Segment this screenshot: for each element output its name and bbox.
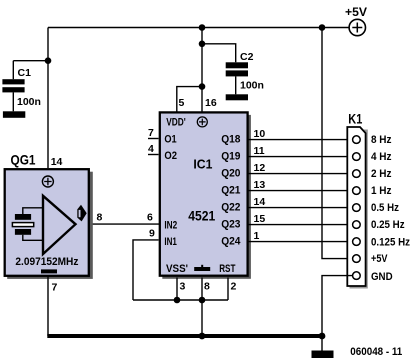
crystal bottom lead [23, 235, 43, 241]
wire C2 branch [202, 44, 236, 63]
svg-text:11: 11 [254, 145, 265, 157]
svg-text:13: 13 [254, 179, 266, 191]
wire Q23 to K1 [249, 224, 353, 226]
svg-text:K1: K1 [348, 111, 362, 127]
svg-text:IN1: IN1 [164, 236, 177, 248]
wire +5V feed to K1 [322, 28, 352, 259]
crystal top electrode [15, 214, 31, 220]
svg-text:IN2: IN2 [164, 219, 177, 231]
node junction bus center [199, 333, 206, 340]
svg-text:100n: 100n [240, 80, 264, 92]
wire IC1 pin 4 stub [148, 154, 159, 156]
svg-text:12: 12 [254, 162, 266, 174]
node junction rail to K1 +5V [319, 24, 326, 31]
svg-text:Q18: Q18 [221, 134, 240, 146]
wire ground net under IC1 [133, 299, 228, 301]
+5V terminal X1 [345, 5, 367, 36]
svg-text:2.097152MHz: 2.097152MHz [15, 256, 78, 268]
svg-text:1: 1 [254, 230, 260, 242]
K1 pin 4 circle [353, 187, 361, 195]
svg-text:GND: GND [371, 271, 393, 283]
wire K1 GND to bus [322, 276, 352, 336]
svg-text:1 Hz: 1 Hz [371, 185, 392, 197]
svg-text:0.125 Hz: 0.125 Hz [371, 236, 410, 248]
svg-text:VSS': VSS' [166, 263, 188, 275]
svg-text:4 Hz: 4 Hz [371, 151, 392, 163]
svg-text:15: 15 [254, 213, 266, 225]
svg-text:6: 6 [147, 212, 153, 224]
IC U1 IC1 4521 box [160, 112, 251, 278]
svg-text:16: 16 [205, 97, 217, 109]
ground under C2 [226, 94, 248, 100]
wire QG1 pin 7 to bus [47, 277, 49, 337]
K1 pin 8 circle [353, 255, 361, 263]
wire C1 branch [13, 60, 48, 62]
IC1 RST active-low bar [194, 265, 210, 271]
wire Q22 to K1 [249, 207, 353, 209]
oscillator QG1 box [5, 169, 93, 279]
K1 pin 7 circle [353, 238, 361, 246]
crystal bottom electrode [15, 229, 31, 235]
node junction pin 8 [199, 297, 206, 304]
svg-text:100n: 100n [17, 96, 41, 108]
svg-text:C1: C1 [18, 67, 32, 79]
ground bus wire [47, 334, 322, 338]
svg-text:QG1: QG1 [11, 152, 36, 167]
wire vertical from rail to QG1 pin 14 [47, 28, 49, 169]
wire Q24 to K1 [249, 241, 353, 243]
node junction C2 branch [199, 41, 206, 48]
K1 pin 3 circle [353, 170, 361, 178]
svg-text:3: 3 [180, 281, 186, 293]
svg-text:10: 10 [254, 128, 266, 140]
svg-text:Q22: Q22 [221, 202, 240, 214]
svg-text:7: 7 [52, 282, 58, 294]
svg-text:O2: O2 [164, 150, 177, 162]
svg-text:060048 - 11: 060048 - 11 [350, 346, 402, 358]
svg-text:0.25 Hz: 0.25 Hz [371, 219, 405, 231]
svg-text:VDD': VDD' [166, 116, 186, 128]
wire IC1 pin 2 drop [227, 278, 229, 301]
svg-text:7: 7 [148, 127, 154, 139]
svg-text:2 Hz: 2 Hz [371, 168, 392, 180]
wire Q19 to K1 [249, 156, 353, 158]
connector K1 box [347, 127, 368, 289]
svg-text:Q23: Q23 [221, 219, 240, 231]
capacitor C1 [2, 79, 24, 92]
wire C1 bottom lead [12, 92, 14, 111]
svg-text:8: 8 [97, 212, 103, 224]
svg-text:Q19: Q19 [221, 151, 240, 163]
wire IC1 pin 3 drop [176, 278, 178, 301]
svg-text:14: 14 [254, 196, 266, 208]
ground symbol bottom right [312, 351, 334, 359]
capacitor C2 [226, 62, 248, 76]
crystal body [12, 223, 33, 227]
QG1 output symbol [77, 205, 86, 222]
crystal top lead [23, 208, 43, 214]
wire QG1 output to IC1 IN2 [89, 223, 160, 225]
wire bus to ground symbol [321, 336, 323, 351]
svg-text:0.5 Hz: 0.5 Hz [371, 202, 399, 214]
QG1 bottom bar [41, 269, 57, 273]
wire IC1 pin 8 drop [201, 278, 203, 301]
svg-text:Q24: Q24 [221, 236, 241, 248]
wire +5V rail top [48, 27, 349, 29]
wire IC1 pin 5 branch [177, 87, 202, 112]
QG1 amplifier triangle [43, 196, 76, 254]
wire Q20 to K1 [249, 173, 353, 175]
K1 pin 6 circle [353, 221, 361, 229]
svg-text:IC1: IC1 [193, 157, 212, 172]
IC1 plus symbol [197, 117, 207, 127]
svg-text:+5V: +5V [345, 5, 367, 19]
K1 pin 9 circle [353, 272, 361, 280]
node junction C1 branch [45, 57, 52, 64]
svg-text:Q20: Q20 [221, 168, 240, 180]
svg-text:5: 5 [179, 97, 185, 109]
wire IC1 IN1 to ground net [133, 240, 159, 300]
svg-text:8 Hz: 8 Hz [371, 134, 392, 146]
node junction pin 3 [174, 297, 181, 304]
svg-text:RST: RST [219, 263, 235, 275]
ground under C1 [3, 111, 25, 118]
wire ground net to bus [201, 300, 203, 336]
svg-text:8: 8 [204, 281, 210, 293]
QG1 plus symbol [42, 176, 53, 187]
K1 pin 1 circle [353, 136, 361, 144]
wire C2 bottom lead [235, 76, 237, 94]
wire Q18 to K1 [249, 139, 353, 141]
svg-text:+5V: +5V [371, 253, 388, 265]
node junction bus right [319, 333, 326, 340]
svg-text:C2: C2 [240, 51, 254, 63]
wire vertical rail to IC1 pin 16 [201, 28, 203, 112]
svg-text:O1: O1 [164, 133, 176, 145]
svg-text:4: 4 [148, 143, 154, 155]
wire Q21 to K1 [249, 190, 353, 192]
svg-text:9: 9 [149, 228, 155, 240]
svg-text:14: 14 [51, 156, 63, 168]
wire IC1 pin 7 stub [148, 138, 159, 140]
svg-text:Q21: Q21 [221, 185, 240, 197]
K1 pin 5 circle [353, 204, 361, 212]
K1 pin 2 circle [353, 153, 361, 161]
svg-text:4521: 4521 [188, 208, 215, 224]
svg-text:2: 2 [231, 281, 237, 293]
node junction pin 5 branch [199, 83, 206, 90]
wire C1 top lead [12, 61, 14, 79]
node junction rail to IC pin 16 [199, 24, 206, 31]
